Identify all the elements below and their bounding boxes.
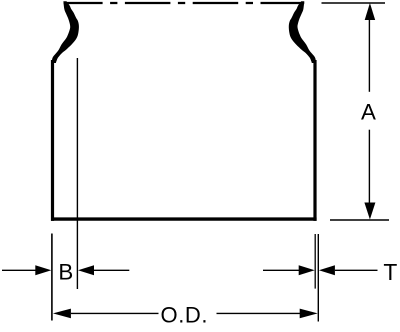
arrowhead T left (points right) — [299, 265, 315, 275]
arrowhead O.D. left (points left) — [53, 309, 71, 319]
ferrule top centerline (dash-dot) — [64, 2, 305, 4]
svg-text:B: B — [58, 259, 73, 284]
arrowhead O.D. right (points right) — [300, 309, 318, 319]
ferrule body right edge — [313, 60, 316, 221]
arrowhead A up — [365, 3, 376, 20]
ferrule body left edge — [51, 60, 54, 221]
dimension line A lower segment — [368, 130, 370, 204]
arrowhead T right (points left) — [319, 265, 335, 275]
extension line left (O.D./B) — [51, 234, 53, 321]
ferrule bottom edge — [51, 217, 317, 220]
extension line T inner — [314, 234, 316, 289]
dimension T left tail — [263, 269, 299, 271]
bore line (inner wall, also B right extension) — [76, 58, 78, 289]
dimension T right tail — [335, 269, 378, 271]
ferrule neck curve left — [52, 1, 79, 63]
svg-text:O.D.: O.D. — [160, 303, 208, 328]
extension line right (O.D./T outer) — [317, 234, 319, 322]
arrowhead B left (points right) — [35, 265, 51, 275]
arrowhead B right (points left) — [78, 265, 94, 275]
dimension B right tail — [94, 269, 129, 271]
dimension O.D. right segment — [217, 312, 302, 314]
extension line A bottom — [330, 219, 389, 221]
svg-text:A: A — [361, 100, 376, 125]
dimension B left tail — [2, 269, 36, 271]
extension line A top — [322, 2, 386, 4]
dimension line A upper segment — [368, 19, 370, 92]
ferrule neck curve right — [289, 1, 316, 63]
dimension O.D. left segment — [71, 312, 159, 314]
svg-text:T: T — [383, 259, 397, 285]
arrowhead A down — [364, 203, 375, 220]
